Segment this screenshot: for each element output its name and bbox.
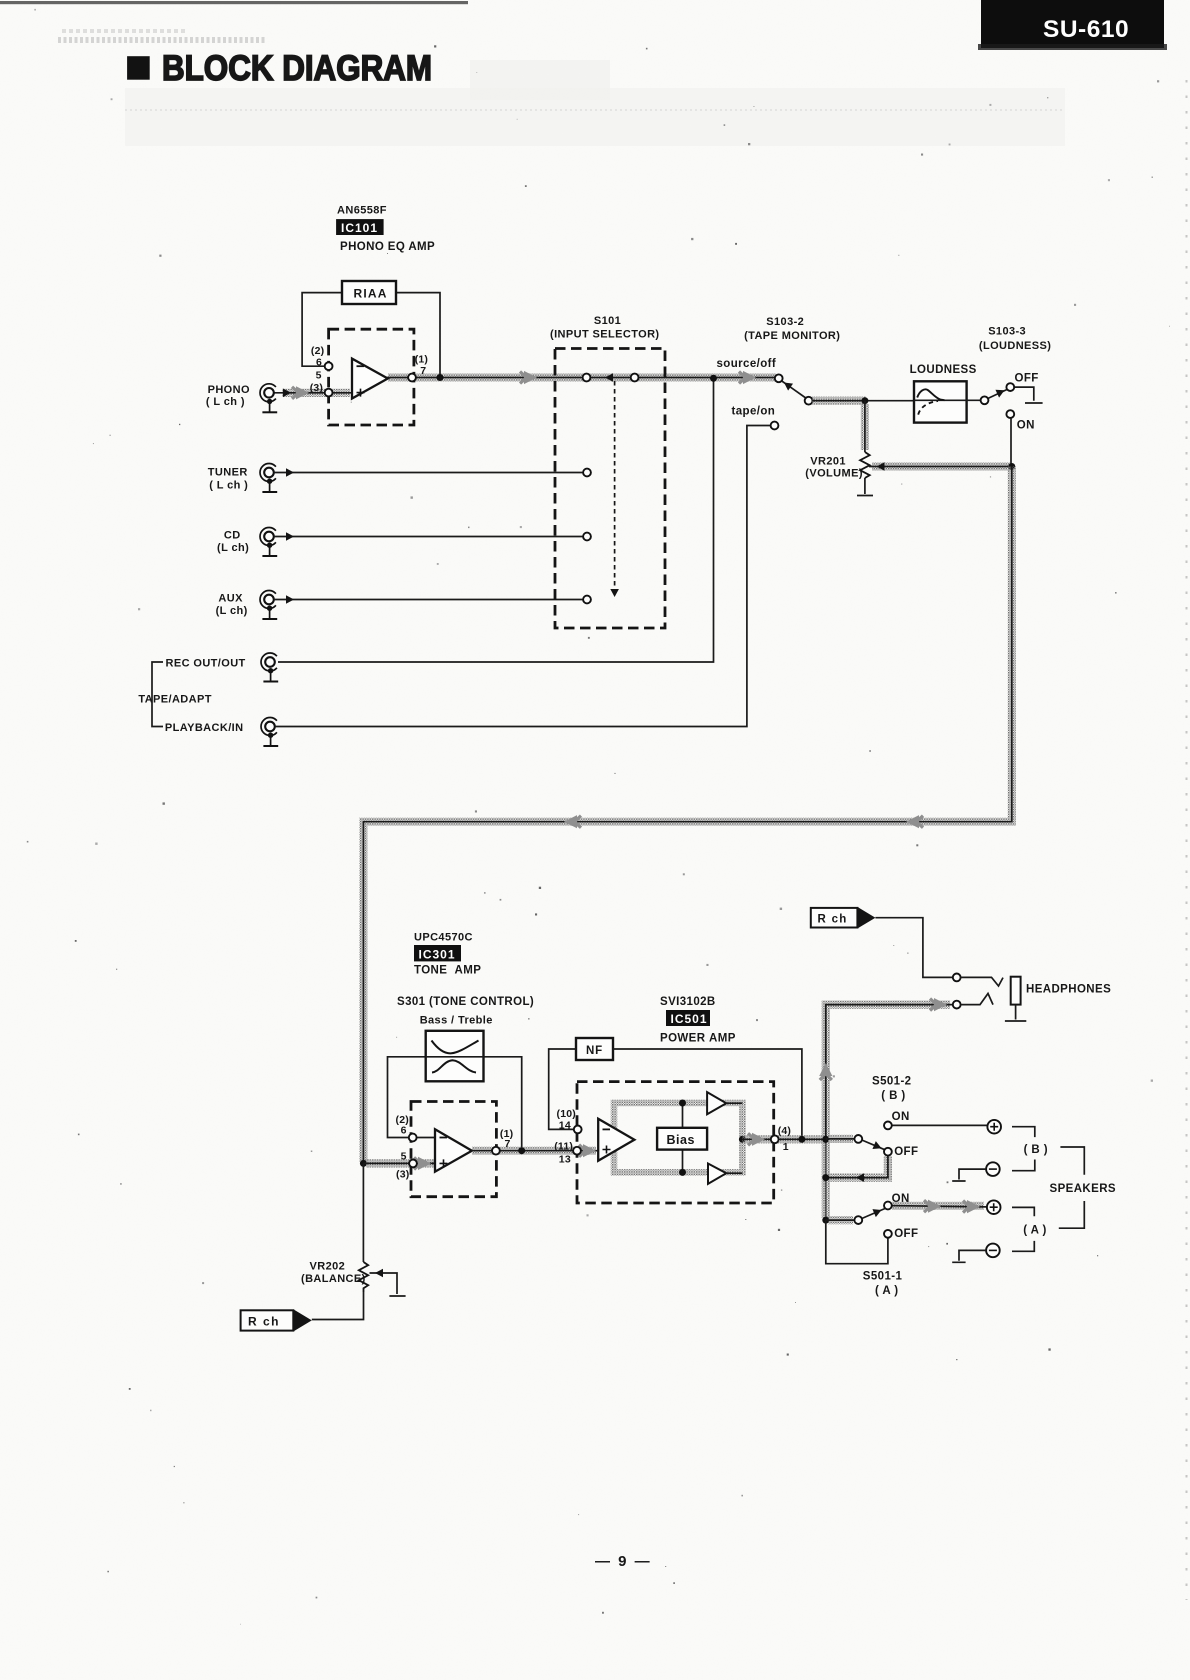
svg-text:(BALANCE): (BALANCE) — [301, 1273, 366, 1285]
wire: S101 wiper output to S103-2 source contact (hatched) — [587, 371, 779, 384]
svg-text:BLOCK DIAGRAM: BLOCK DIAGRAM — [162, 48, 432, 88]
wire: S501-1 ON contact to speaker A plus (hatched) — [892, 1200, 987, 1214]
wire: AUX to S101 contact — [274, 595, 584, 604]
NF feedback box — [576, 1038, 613, 1060]
label IC501 — [666, 1010, 710, 1026]
svg-text:OFF: OFF — [894, 1228, 918, 1240]
pin 5(3) of IC301 — [396, 1150, 417, 1180]
svg-text:( B ): ( B ) — [1024, 1144, 1048, 1156]
wire: PHONO input to IC101 pin 5 (hatched signal path) — [274, 386, 352, 399]
svg-text:PLAYBACK/IN: PLAYBACK/IN — [165, 722, 244, 734]
S501-1 common contact — [854, 1216, 862, 1224]
speaker B plus terminal — [987, 1120, 1001, 1134]
speaker B terminal bracket — [1012, 1127, 1035, 1171]
svg-text:13: 13 — [559, 1154, 571, 1166]
svg-text:SVI3102B: SVI3102B — [660, 996, 716, 1008]
svg-text:tape/on: tape/on — [732, 406, 776, 418]
svg-text:5: 5 — [316, 369, 322, 381]
svg-text:REC OUT/OUT: REC OUT/OUT — [166, 658, 246, 670]
speaker A terminal bracket — [1012, 1207, 1034, 1251]
wire: VR202 wiper to ground — [370, 1269, 406, 1296]
IC101 dashed box — [329, 329, 414, 425]
svg-text:Bias: Bias — [667, 1133, 695, 1147]
wire: S103-2 common to LOUDNESS box (hatched to volume tap) — [812, 397, 914, 405]
wire: bus to S501-2 common (hatched) — [826, 1135, 855, 1143]
svg-text:(VOLUME): (VOLUME) — [805, 468, 863, 480]
wire: IC101 output pin 7 to S101 phono contact (hatched) — [386, 371, 587, 384]
svg-text:TONE AMP: TONE AMP — [414, 965, 481, 977]
pin (1)7 of IC101 — [408, 354, 428, 382]
S101 input selector dashed box — [555, 349, 665, 629]
wire: Bass/Treble box to output junction — [484, 1057, 522, 1151]
pin (2)6 of IC101 — [311, 345, 333, 370]
wire: power amp output pin 1 to speaker bus (hatched) — [742, 1133, 825, 1146]
svg-text:ON: ON — [1017, 420, 1035, 432]
SPEAKERS group bracket — [1059, 1147, 1085, 1228]
node: tone feedback junction on output — [518, 1147, 525, 1154]
svg-text:AN6558F: AN6558F — [337, 205, 387, 217]
pin 5(3) of IC101 — [310, 369, 333, 396]
svg-text:(1): (1) — [415, 354, 428, 366]
wire: RIAA box to IC101 output junction — [396, 293, 440, 378]
label S103-3 (LOUDNESS) — [979, 326, 1051, 352]
svg-text:6: 6 — [316, 357, 322, 369]
op-amp U3 (IC501 power amp input stage) — [598, 1119, 634, 1161]
S103-2 common contact — [805, 397, 813, 405]
tone control box S301 Bass/Treble — [426, 1031, 484, 1082]
svg-text:(2): (2) — [311, 345, 324, 357]
node: bias bottom rail junction — [679, 1169, 686, 1176]
power amp output stage hatched loop — [614, 1103, 742, 1172]
S103-2 tape contact — [771, 422, 779, 430]
jack CD (L ch) — [217, 528, 277, 557]
S103-3 OFF contact — [1006, 383, 1014, 391]
wire: S501-2 OFF loop back to bus (hatched) — [826, 1156, 888, 1182]
ground below headphone jack — [1005, 1005, 1026, 1021]
wire: REC OUT tap from main line down to REC OUT jack — [278, 378, 714, 662]
svg-text:S501-2: S501-2 — [872, 1076, 911, 1088]
svg-text:IC501: IC501 — [671, 1012, 708, 1026]
ground below VR201 — [857, 478, 873, 496]
S101 wiper output contact — [631, 374, 639, 382]
svg-text:R ch: R ch — [818, 914, 848, 926]
potentiometer VR201 (VOLUME) — [805, 452, 869, 480]
svg-text:S101: S101 — [594, 315, 621, 327]
speaker A plus terminal — [987, 1200, 1001, 1214]
pin (1)7 of IC301 — [492, 1128, 513, 1155]
S501-1 OFF contact — [884, 1230, 892, 1238]
svg-text:5: 5 — [401, 1150, 407, 1162]
svg-text:7: 7 — [420, 365, 426, 377]
svg-text:SPEAKERS: SPEAKERS — [1050, 1183, 1116, 1195]
pin (11)13 of IC501 — [554, 1141, 581, 1166]
svg-text:PHONO EQ AMP: PHONO EQ AMP — [340, 241, 435, 253]
node: feedback junction on IC101 output — [437, 374, 444, 381]
jack PHONO (L ch) — [206, 384, 277, 413]
svg-text:TAPE/ADAPT: TAPE/ADAPT — [138, 694, 211, 706]
wire: R ch arrow to VR202 bottom — [312, 1292, 364, 1320]
label S501-2 (B) — [872, 1076, 911, 1103]
wire: LOUDNESS box to S103-3 common — [967, 399, 985, 401]
svg-text:POWER AMP: POWER AMP — [660, 1033, 736, 1045]
svg-text:RIAA: RIAA — [354, 287, 388, 301]
svg-text:S501-1: S501-1 — [863, 1271, 903, 1283]
switch S103-2 arm (source selected) — [782, 379, 807, 399]
wire: S501-2 ON contact to speaker B plus — [892, 1124, 987, 1126]
label IC101 — [336, 219, 384, 235]
wire: VR201 wiper to volume bus (hatched) — [869, 462, 1012, 471]
svg-text:ON: ON — [892, 1111, 910, 1123]
resistor box RIAA — [342, 281, 396, 304]
wire: IC301 output to IC501 pin 13 (hatched) — [471, 1144, 598, 1157]
svg-text:UPC4570C: UPC4570C — [414, 932, 473, 944]
ground at speaker A minus — [952, 1250, 986, 1262]
LOUDNESS filter box — [910, 364, 977, 423]
svg-text:S301 (TONE CONTROL): S301 (TONE CONTROL) — [397, 996, 534, 1008]
svg-text:(4): (4) — [778, 1125, 791, 1137]
svg-text:14: 14 — [559, 1120, 571, 1132]
R ch box (headphone feed) — [811, 907, 876, 929]
op-amp U1 (IC101 phono EQ amp) — [352, 359, 388, 399]
node: tone amp input junction — [360, 1160, 367, 1167]
Bias box — [657, 1128, 707, 1150]
wire: S501-1 OFF loop to bus — [826, 1220, 888, 1264]
node: volume tap junction — [861, 397, 868, 404]
svg-text:(3): (3) — [396, 1168, 409, 1180]
svg-text:7: 7 — [505, 1138, 511, 1150]
svg-text:IC101: IC101 — [341, 221, 378, 235]
wire: RIAA feedback from pin 6 up to RIAA box — [302, 293, 342, 367]
node: NF tap junction — [798, 1136, 805, 1143]
svg-text:(3): (3) — [310, 382, 323, 394]
label IC301 — [414, 945, 461, 961]
S103-3 ON contact — [1006, 410, 1014, 418]
speaker B minus terminal — [986, 1162, 1000, 1176]
svg-text:VR201: VR201 — [810, 456, 846, 468]
node: OFF loop junction on bus — [822, 1174, 829, 1181]
buffer transistor triangle (upper output device) — [707, 1092, 742, 1114]
headphone jack L contact circle — [953, 1001, 961, 1009]
svg-text:( L ch ): ( L ch ) — [206, 396, 245, 408]
svg-text:source/off: source/off — [717, 358, 777, 370]
IC301 dashed box — [411, 1102, 496, 1197]
wire: junction to IC301 pin 5 and op-amp input (hatched) — [363, 1157, 435, 1170]
wire: R ch arrow to headphone R contact — [875, 918, 952, 978]
S501-2 common contact — [854, 1135, 862, 1143]
wire: TUNER to S101 contact — [274, 468, 584, 477]
jack TUNER (L ch) — [208, 464, 277, 493]
svg-text:(TAPE MONITOR): (TAPE MONITOR) — [744, 330, 840, 342]
label S103-2 (TAPE MONITOR) — [744, 316, 840, 342]
op-amp U2 (IC301 tone amp) — [435, 1129, 472, 1172]
node: S501-1 tap — [822, 1217, 829, 1224]
IC501 dashed box — [577, 1082, 774, 1203]
svg-text:S103-2: S103-2 — [766, 316, 804, 328]
jack PLAYBACK/IN — [165, 718, 278, 747]
switch S501-2 arm (to OFF) — [862, 1140, 885, 1152]
wire: NF box to IC501 pin 14 — [549, 1049, 578, 1129]
speaker A minus terminal — [986, 1244, 1000, 1258]
R ch input box (to balance pot) — [241, 1309, 312, 1331]
svg-text:Bass / Treble: Bass / Treble — [420, 1015, 493, 1027]
wire: speaker bus up to headphone contact (hatched) — [819, 998, 953, 1220]
node: S501-2 tap — [822, 1136, 829, 1143]
node: wiper/bus junction — [1008, 463, 1015, 470]
svg-text:CD: CD — [224, 530, 241, 542]
S101 selector wiper dashed arrow — [610, 381, 619, 597]
wire: tone feedback from pin 6 up to Bass/Treble box — [388, 1057, 426, 1138]
wire: PLAYBACK/IN jack to S103-2 tape contact — [275, 426, 775, 727]
switch S501-1 arm (to ON) — [862, 1206, 885, 1218]
svg-text:HEADPHONES: HEADPHONES — [1026, 984, 1111, 996]
svg-text:( B ): ( B ) — [881, 1090, 905, 1102]
S101 phono contact — [583, 374, 591, 382]
S101 tuner contact — [583, 469, 591, 477]
S501-2 ON contact — [884, 1122, 892, 1130]
svg-text:IC301: IC301 — [419, 947, 456, 961]
pin (10)14 of IC501 — [557, 1108, 582, 1133]
S501-1 ON contact — [884, 1202, 892, 1210]
svg-text:AUX: AUX — [218, 593, 243, 605]
buffer transistor triangle (lower output device) — [708, 1164, 742, 1184]
node: bus/output junction — [822, 1136, 829, 1143]
switch S103-3 arm (to OFF) — [988, 386, 1007, 398]
node: output stage join — [739, 1136, 746, 1143]
svg-text:VR202: VR202 — [310, 1261, 346, 1273]
svg-text:( L ch ): ( L ch ) — [209, 480, 248, 492]
wire: bus to S501-1 common (hatched) — [826, 1216, 855, 1224]
label S101 (INPUT SELECTOR) — [550, 315, 659, 341]
svg-text:1: 1 — [783, 1141, 789, 1153]
ground at speaker B minus — [952, 1169, 986, 1181]
jack AUX (L ch) — [216, 591, 278, 620]
svg-text:(L ch): (L ch) — [216, 605, 248, 617]
wire: speaker bus down S501 section (hatched) — [822, 1141, 830, 1218]
headphone jack body — [1011, 977, 1021, 1005]
svg-text:( A ): ( A ) — [875, 1285, 899, 1297]
svg-text:— 9 —: — 9 — — [595, 1553, 652, 1570]
wire: bias box rails — [682, 1103, 684, 1172]
svg-text:LOUDNESS: LOUDNESS — [910, 364, 977, 376]
svg-text:NF: NF — [586, 1045, 603, 1057]
svg-text:PHONO: PHONO — [208, 384, 250, 396]
svg-text:( A ): ( A ) — [1023, 1224, 1047, 1236]
wire: CD to S101 contact — [274, 532, 584, 541]
wire: NF box to power amp output junction — [613, 1049, 802, 1139]
potentiometer VR202 (BALANCE) — [301, 1163, 368, 1292]
pin (4)1 of IC501 — [771, 1125, 791, 1153]
svg-text:(LOUDNESS): (LOUDNESS) — [979, 340, 1051, 352]
S101 cd contact — [583, 533, 591, 541]
node: REC OUT tap junction — [710, 375, 717, 382]
wire: IC301 pin 6 to op-amp inverting input — [413, 1137, 435, 1139]
S103-3 common contact — [981, 396, 989, 404]
S103-2 source contact — [775, 374, 783, 382]
headphone jack tip springs — [961, 977, 1004, 1004]
wire: OFF open stub with end bar — [1014, 387, 1042, 403]
svg-text:S103-3: S103-3 — [988, 326, 1026, 338]
S101 aux contact — [583, 596, 591, 604]
title: BLOCK DIAGRAM heading square — [127, 56, 150, 79]
jack REC OUT/OUT — [166, 653, 279, 682]
svg-text:SU-610: SU-610 — [1043, 16, 1129, 43]
label TAPE/ADAPT with bracket — [138, 662, 211, 727]
svg-text:(INPUT SELECTOR): (INPUT SELECTOR) — [550, 329, 659, 341]
node: bias top rail junction — [679, 1100, 686, 1107]
svg-text:(L ch): (L ch) — [217, 542, 249, 554]
svg-text:R ch: R ch — [248, 1315, 280, 1329]
svg-text:OFF: OFF — [1015, 373, 1039, 385]
S501-2 OFF contact — [884, 1148, 892, 1156]
model tab SU-610 — [978, 0, 1167, 50]
pin (2)6 of IC301 — [396, 1114, 417, 1141]
headphone jack R contact circle — [953, 974, 961, 982]
svg-text:(10): (10) — [557, 1108, 576, 1120]
label S501-1 (A) — [863, 1271, 903, 1298]
wire: volume tap down to VR201 (hatched) — [861, 401, 869, 452]
wire: volume bus down, across and down to tone amp input (hatched) — [363, 467, 1011, 1164]
svg-text:TUNER: TUNER — [208, 467, 248, 479]
svg-text:(11): (11) — [554, 1141, 573, 1153]
svg-text:OFF: OFF — [894, 1146, 918, 1158]
svg-text:6: 6 — [401, 1125, 407, 1137]
wire: S103-3 ON contact down to wiper junction — [1010, 418, 1012, 467]
